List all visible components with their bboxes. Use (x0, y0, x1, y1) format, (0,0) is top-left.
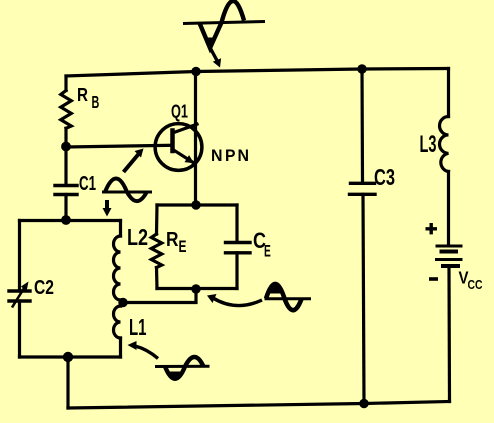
svg-text:C2: C2 (34, 276, 54, 299)
svg-text:R: R (77, 84, 88, 105)
svg-text:N: N (238, 147, 250, 165)
svg-text:L2: L2 (127, 224, 148, 250)
svg-text:N: N (211, 147, 223, 165)
svg-text:Q1: Q1 (171, 101, 188, 122)
svg-text:R: R (166, 228, 179, 251)
svg-text:L1: L1 (129, 314, 147, 340)
svg-text:B: B (92, 92, 100, 112)
svg-text:E: E (179, 237, 187, 256)
svg-text:CC: CC (468, 277, 483, 292)
svg-text:C3: C3 (374, 164, 395, 190)
svg-text:C1: C1 (79, 173, 96, 195)
svg-text:P: P (225, 147, 236, 165)
svg-text:L3: L3 (420, 131, 437, 158)
svg-text:E: E (264, 242, 271, 261)
